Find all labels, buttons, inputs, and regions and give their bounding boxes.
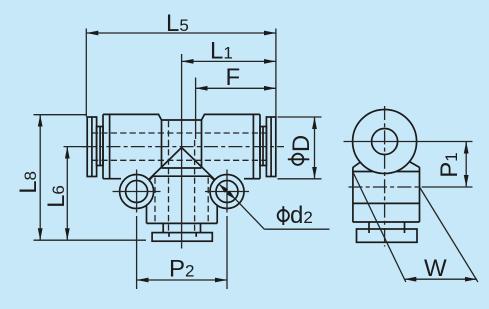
svg-text:d2: d2	[290, 202, 313, 229]
front view: center block base line	[162, 167, 202, 169]
front view: center block right side	[201, 120, 203, 168]
dimension phid2 label: phi symbol bar	[282, 206, 284, 225]
front view: stem right side	[216, 183, 218, 224]
side view: vertical center line	[384, 106, 386, 247]
front view: vertical center line	[181, 54, 183, 249]
side view: neck right	[404, 222, 406, 229]
dimension P2 extension left	[136, 216, 138, 289]
front view: left collar divider line	[91, 117, 93, 177]
side view: horizontal center line through circle	[344, 141, 473, 143]
front view: right circle crosshair horizontal	[205, 191, 249, 193]
side view: base tick left	[368, 229, 370, 233]
dimension L5 extension right shared	[275, 29, 277, 117]
side view: main circle outer	[353, 110, 417, 174]
front view: right cylinder right face	[259, 114, 261, 178]
front view: right neck inner line	[262, 127, 264, 166]
front view: hidden stem bore right	[194, 140, 196, 233]
side view: neck left	[368, 222, 370, 229]
dimension P2 line	[137, 279, 227, 281]
front view: stem left chamfer	[147, 176, 154, 183]
front view: right neck between body and collar	[260, 127, 266, 166]
dimension phiD line	[314, 117, 316, 179]
dimension P1 line	[465, 142, 467, 188]
svg-text:P1: P1	[436, 152, 463, 177]
svg-text:F: F	[226, 64, 241, 91]
svg-text:L8: L8	[15, 171, 42, 194]
dimension W line	[404, 278, 477, 280]
front view: right cylinder top edge	[202, 114, 261, 120]
svg-text:W: W	[424, 255, 447, 282]
front view: left cylinder step line	[109, 114, 111, 178]
front view: stem right chamfer	[210, 176, 217, 183]
dimension phid2 leader diagonal	[235, 199, 264, 229]
dimension W diagonal extension left	[353, 172, 406, 283]
front view: left circle crosshair vertical	[136, 170, 138, 213]
dimension phid2 label: phi symbol circle	[278, 210, 289, 221]
front view: right port circle inner	[216, 181, 238, 203]
dimension phiD label: phi symbol bar	[288, 158, 310, 160]
front view: right port circle outer	[210, 175, 244, 209]
dimension phiD label: phi symbol circle	[292, 154, 303, 165]
dimension L1 line	[182, 60, 276, 62]
side view: port axis dash-dot	[349, 186, 424, 188]
dimension phiD extension bottom	[278, 178, 322, 180]
dimension L8 extension top	[34, 114, 88, 116]
front view: right cylinder bottom edge	[244, 178, 260, 180]
front view: left neck inner line	[99, 127, 101, 166]
dimension W diagonal extension right	[420, 187, 478, 282]
side view: left ear chamfer	[353, 162, 360, 167]
front view: hidden stem outer bore right	[207, 178, 209, 223]
front view: right cylinder step line	[252, 114, 254, 178]
dimension L5 extension left	[85, 29, 87, 117]
dimension F extension left	[195, 78, 197, 140]
dimension phid2 chord with arrows in right circle	[219, 184, 235, 199]
svg-text:L1: L1	[210, 38, 233, 65]
svg-text:D: D	[288, 135, 315, 152]
dimension L6 extension top	[64, 146, 87, 148]
front view: base plate	[152, 233, 212, 242]
front view: left port circle outer	[120, 175, 154, 209]
side view: right ear chamfer	[409, 162, 419, 168]
front view: base plate tick left	[168, 233, 170, 237]
front view: triangle apex right leg to right circle	[182, 148, 215, 180]
front view: left cylinder left face	[102, 114, 104, 178]
dimension phid2 leader horizontal	[264, 228, 329, 230]
front view: stem neck left	[162, 223, 164, 232]
dimension L8 line	[39, 115, 41, 241]
dimension bottom extension line	[34, 239, 147, 241]
front view: base plate tick right	[195, 233, 197, 237]
svg-text:P2: P2	[169, 256, 194, 283]
side view: body left side	[352, 167, 354, 222]
front view: triangle apex left leg to left circle	[149, 148, 182, 180]
front view: left port circle inner	[126, 181, 148, 203]
side view: body top edge	[353, 171, 420, 173]
front view: left neck between collar and body	[97, 127, 103, 166]
svg-text:L6: L6	[43, 185, 70, 208]
side view: body mid line	[353, 202, 420, 204]
dimension phiD extension top	[278, 116, 322, 118]
front view: left circle crosshair horizontal	[113, 191, 161, 193]
front view: hidden bore line lower	[92, 159, 271, 161]
front view: center block top edge	[162, 119, 202, 121]
dimension P2 extension right	[226, 216, 228, 289]
side view: base tick right	[404, 229, 406, 233]
front view: center block left side	[161, 120, 163, 168]
front view: right release collar lip	[266, 117, 275, 177]
side view: body right side	[419, 167, 421, 222]
dimension F line	[196, 87, 276, 89]
dimension L5 line	[86, 32, 276, 34]
front view: stem neck right	[200, 223, 202, 232]
front view: stem left side	[146, 183, 148, 224]
front view: left cylinder bottom edge	[103, 178, 121, 180]
dimension L6 line	[66, 147, 68, 241]
side view: body bottom edge	[353, 221, 420, 223]
front view: hidden bore line upper	[92, 132, 271, 134]
front view: left release collar lip	[87, 117, 96, 177]
side view: main circle inner	[372, 129, 398, 155]
side view: base plate	[357, 229, 418, 242]
front view: right circle crosshair vertical	[226, 170, 228, 213]
front view: hidden stem outer bore left	[154, 178, 156, 223]
dimension P1 extension bottom	[424, 186, 473, 188]
front view: stem wide shoulder line	[153, 175, 210, 177]
svg-text:L5: L5	[166, 10, 189, 37]
front view: hidden stem bore left	[168, 121, 170, 233]
front view: stem bottom edge	[147, 222, 218, 224]
front view: horizontal center line	[82, 146, 284, 148]
front view: right collar divider line	[270, 117, 272, 177]
front view: left cylinder top edge	[103, 114, 162, 120]
